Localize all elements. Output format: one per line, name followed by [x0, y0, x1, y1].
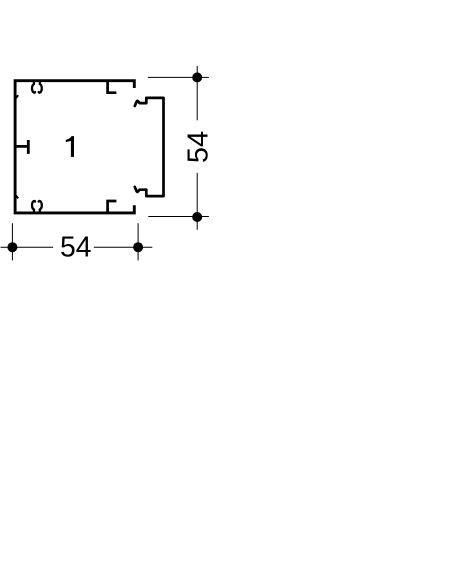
svg-text:54: 54 — [60, 230, 91, 262]
svg-text:54: 54 — [182, 131, 214, 163]
